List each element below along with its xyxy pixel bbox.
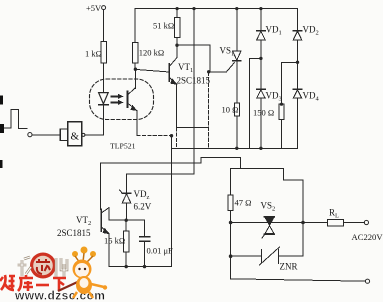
phototransistor of optocoupler	[128, 68, 138, 111]
wire VT2 collector to node line	[109, 208, 144, 221]
long vertical wire from top rail	[127, 9, 195, 175]
node AC terminal bottom	[365, 279, 369, 283]
diode VD3	[257, 89, 282, 148]
wire 47 column down	[230, 223, 232, 279]
scan artifact marks left edge	[0, 96, 4, 169]
transistor VT1	[135, 58, 210, 86]
transistor VT2	[57, 208, 110, 239]
wire base drive line	[101, 157, 241, 168]
input pulse symbol	[2, 110, 27, 129]
svg-text:1 kΩ: 1 kΩ	[85, 49, 102, 59]
watermark bottom-left red brand glyphs	[0, 275, 66, 291]
capacitor 0.01uF	[140, 220, 174, 266]
wire 47ohm to VS2 line	[230, 210, 232, 222]
resistor RL	[328, 208, 344, 226]
svg-text:15 kΩ: 15 kΩ	[104, 236, 125, 246]
wire R120k to VT1 base node	[134, 63, 136, 69]
LED inside optocoupler	[99, 92, 109, 135]
wire drive down to VT2 base	[100, 163, 102, 209]
wire VD1 junction to VD3	[260, 58, 262, 89]
varistor ZNR	[260, 223, 304, 272]
svg-text:+5V: +5V	[86, 3, 102, 13]
node dots on bridge bottom line	[235, 147, 262, 150]
wire rail to R51k	[176, 9, 178, 18]
resistor 47ohm	[228, 195, 251, 210]
wire phototransistor emitter to vertical	[136, 111, 138, 136]
svg-text:VS1: VS1	[220, 46, 235, 58]
wire VT2 block bottom rail	[109, 266, 171, 268]
wire R51k to VT1 collector	[176, 38, 178, 58]
wire long vertical mid	[171, 136, 173, 267]
node +5V terminal	[86, 3, 106, 13]
wire VS2 main line	[231, 222, 328, 224]
svg-text:47 Ω: 47 Ω	[235, 198, 252, 208]
resistor 1k	[85, 41, 106, 62]
wire dashed stub below VT1 emitter corner	[176, 128, 178, 148]
svg-text:2SC1815: 2SC1815	[57, 228, 91, 238]
input terminal	[28, 133, 32, 137]
diode VD4	[293, 89, 319, 148]
wire VS1 gate	[209, 63, 235, 72]
wire input to gate	[32, 134, 60, 136]
svg-text:&: &	[71, 131, 80, 143]
wire to 47ohm	[231, 169, 241, 196]
triac VS2	[261, 201, 276, 239]
svg-text:VD3: VD3	[266, 91, 282, 103]
node VT1 collector junction	[175, 44, 178, 47]
svg-text:ZNR: ZNR	[280, 262, 298, 272]
wire R1k to LED	[103, 63, 105, 92]
wire VT2 emitter down	[108, 234, 110, 267]
node VD1 cathode junction	[259, 57, 262, 60]
wire bridge bottom line	[172, 147, 298, 149]
node gate line junction	[207, 70, 210, 73]
svg-text:VDz: VDz	[134, 189, 150, 201]
resistor 15k	[104, 220, 129, 266]
node emitter line junction	[170, 134, 173, 137]
node VD2 cathode junction	[296, 61, 299, 64]
wire ZNR line	[231, 255, 262, 257]
wire 10ohm to bottom line	[236, 116, 238, 149]
light arrows	[112, 94, 124, 105]
wire emitter junction down to bridge bottom line	[208, 72, 210, 149]
svg-text:150 Ω: 150 Ω	[253, 108, 274, 118]
node zener bottom junction	[125, 219, 128, 222]
svg-text:VD1: VD1	[266, 25, 282, 37]
wire VD2 junction branch to 150ohm	[282, 62, 298, 104]
thyristor VS1	[220, 9, 241, 103]
wire gate output to LED column	[85, 134, 104, 136]
wire VT1 collector node to VS1 gate jog	[177, 45, 210, 72]
svg-text:VS2: VS2	[261, 201, 276, 213]
resistor 10ohm	[222, 103, 240, 116]
watermark bottom-left 找芯片 bubble text and badge	[18, 253, 68, 279]
watermark mascot	[58, 247, 107, 299]
wire rail to R120k	[134, 9, 136, 43]
svg-text:AC220V: AC220V	[352, 232, 383, 242]
wire VD2 junction to VD4	[297, 62, 299, 89]
wire RL to terminal	[344, 222, 365, 224]
resistor 120k	[133, 42, 165, 62]
zener diode VDz	[120, 174, 152, 220]
resistor 150ohm	[253, 103, 284, 120]
resistor 51k	[153, 17, 180, 37]
node dots bottom rail	[125, 265, 147, 268]
wire 150ohm to bottom line	[281, 120, 283, 149]
wire to triac right node	[240, 169, 303, 223]
svg-text:120 kΩ: 120 kΩ	[139, 48, 164, 58]
svg-text:6.2V: 6.2V	[134, 202, 152, 212]
AND gate box	[60, 122, 85, 146]
svg-text:10 Ω: 10 Ω	[222, 105, 239, 115]
svg-text:TLP521: TLP521	[110, 141, 136, 150]
svg-text:51 kΩ: 51 kΩ	[153, 21, 174, 31]
diode VD1	[257, 9, 282, 59]
node AC terminal top	[364, 220, 368, 224]
svg-text:VD2: VD2	[303, 25, 319, 37]
wire base node down to phototransistor collector	[135, 68, 137, 88]
node VT1 base junction	[134, 68, 137, 71]
node dots on top rail	[176, 7, 263, 10]
svg-text:RL: RL	[329, 208, 339, 220]
svg-text:0.01 μF: 0.01 μF	[147, 246, 174, 256]
wire VD1 junction branch left down	[249, 58, 261, 148]
diode VD2	[293, 9, 319, 63]
optocoupler TLP521 dashed outline	[90, 79, 154, 120]
svg-text:VT2: VT2	[76, 215, 91, 227]
node VS2 left	[229, 221, 233, 225]
node VS2 right	[301, 221, 305, 225]
node ZNR left	[229, 254, 233, 258]
wire bottom rail	[231, 279, 366, 281]
svg-text:VT1: VT1	[178, 62, 193, 74]
wire VT1 emitter path	[177, 84, 209, 127]
svg-text:VD4: VD4	[303, 91, 320, 103]
top rail	[135, 8, 298, 10]
wire +5V to R 1k	[103, 10, 105, 42]
